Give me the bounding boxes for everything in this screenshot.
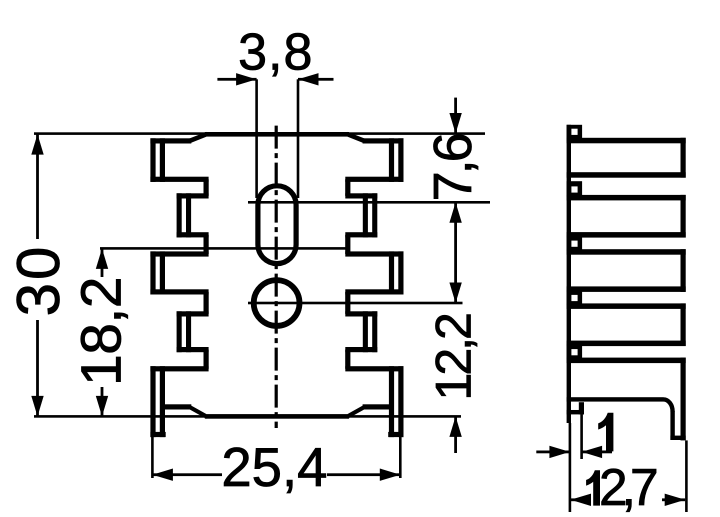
extension line solder pin right (1) — [580, 414, 583, 459]
left fin 3 tip inner wall — [160, 251, 165, 294]
left root wall fin3-fin4 — [204, 292, 209, 314]
dimension 7,6 top arrow — [449, 113, 461, 134]
extension line slot-hole upper arc center (7,6 reference) — [248, 201, 490, 204]
dimension 3,8 line left part — [217, 78, 256, 81]
left fin 2 tip inner wall — [186, 193, 191, 237]
side view solder pin notch bottom cap — [567, 410, 584, 415]
dimension 30 line upper part — [36, 134, 39, 239]
side view solder pin notch (white) — [571, 402, 579, 410]
svg-text:25,4: 25,4 — [221, 437, 327, 498]
dimension 3,8 left arrow — [236, 73, 257, 85]
left fin 4 tip outer wall — [177, 311, 182, 352]
side view foot bottom cap — [670, 436, 685, 440]
dimension 3,8 line right part — [298, 78, 334, 81]
left fin 1 tip inner wall — [160, 138, 165, 182]
dimension 12,2 line below — [454, 416, 457, 453]
extension line slot-hole lower arc center (18,2 reference) — [100, 247, 348, 250]
dimension 7,6 bottom arrow — [449, 202, 461, 223]
dimension 30 top arrow — [31, 134, 43, 155]
right solder tab outer wall — [398, 366, 403, 437]
side view fin 2 top edge — [567, 195, 686, 201]
side view base back edge — [567, 125, 571, 423]
front view top edge — [205, 132, 349, 137]
side view fin 4 bottom edge — [567, 341, 686, 347]
right fin 5 (solder tab) top edge — [345, 366, 403, 371]
right solder tab bottom cap — [388, 432, 403, 437]
dimension 25,4 line left part — [152, 473, 222, 476]
left fin 1 bottom edge — [150, 177, 208, 182]
left fin 2 tip outer wall — [177, 193, 182, 237]
right root wall fin1-fin2 — [345, 179, 350, 196]
dimension 25,4 right arrow — [380, 469, 401, 481]
left solder tab bottom cap — [150, 432, 165, 437]
extension line side view front face (12,7) — [685, 440, 688, 512]
slot hole (obround 3,8) — [258, 186, 296, 264]
right solder tab inner bottom edge — [363, 404, 394, 409]
front view bottom edge — [205, 414, 349, 419]
side view fin 5 right edge and foot right edge — [681, 358, 686, 441]
side view fin 4 top edge — [567, 303, 686, 309]
right fin 4 tip outer wall — [372, 311, 377, 352]
left fin 4 bottom edge — [177, 347, 209, 352]
dimension 30 line lower part — [36, 320, 39, 416]
dimension 1 left arrow — [549, 446, 570, 458]
dimension 7,6 / 12,2 shared line — [454, 202, 457, 303]
left fin 2 top edge — [177, 193, 209, 198]
dimension 1 line left part — [536, 451, 570, 454]
extension line round-hole center (12,2 reference) — [248, 302, 463, 305]
side view top corner tab — [567, 125, 583, 141]
left fin 3 bottom edge — [150, 289, 208, 294]
dimension 3,8 right arrow — [298, 73, 319, 85]
extension line bottom edge (30 / 18,2 / 12,2 reference) — [34, 415, 461, 418]
left fin 4 top edge — [177, 311, 209, 316]
vertical center line front view — [275, 126, 278, 428]
left solder tab inner bottom edge — [161, 404, 192, 409]
side view fin 3 right edge — [681, 249, 686, 292]
front view top left chamfer — [189, 132, 206, 144]
dimension 30 bottom arrow — [31, 396, 43, 417]
side view tab above fin 3 — [567, 235, 583, 251]
right fin 2 bottom edge — [345, 232, 377, 237]
side view fin 1 right edge — [681, 138, 686, 178]
right solder tab inner wall — [389, 366, 394, 437]
left fin 1 tip outer wall — [150, 138, 155, 182]
right root wall fin2-fin3 — [345, 235, 350, 254]
extension line top edge (30 / 7,6 reference) — [34, 132, 485, 135]
side view fin 1 top edge — [567, 138, 686, 144]
side view fin 4 right edge — [681, 303, 686, 346]
dimension 25,4 line right part — [327, 473, 400, 476]
left fin 3 top edge — [150, 251, 208, 256]
dimension 18,2 top arrow — [96, 248, 108, 269]
svg-text:2,7: 2,7 — [599, 458, 657, 516]
side view tab above fin 4 — [567, 290, 583, 306]
side view solder pin notch right wall — [579, 402, 584, 414]
right fin 2 top edge — [345, 193, 377, 198]
dimension 7,6 line above — [454, 98, 457, 134]
dimension 12,7 line right part — [662, 498, 685, 501]
side view fin 1 bottom edge — [567, 172, 686, 178]
front view top right chamfer — [348, 132, 365, 144]
dimension 1 line right part — [582, 451, 612, 454]
extension line slot-hole right (3,8) — [297, 79, 300, 198]
front view bottom right chamfer — [348, 405, 365, 419]
left fin 3 tip outer wall — [150, 251, 155, 294]
side view fin 3 top edge — [567, 249, 686, 255]
svg-text:18,2: 18,2 — [70, 277, 134, 386]
side view foot notch left wall — [670, 411, 674, 440]
left root wall fin4-fin5 — [204, 350, 209, 369]
side view fin 2 right edge — [681, 195, 686, 238]
right fin 3 top edge — [345, 251, 403, 256]
side view fin 3 bottom edge — [567, 286, 686, 292]
right root wall fin4-fin5 — [345, 350, 350, 369]
left root wall fin1-fin2 — [204, 179, 209, 196]
side view foot fillet — [664, 399, 673, 411]
right fin 1 tip outer wall — [398, 138, 403, 182]
left fin 1 top edge — [150, 138, 191, 143]
left solder tab inner wall — [160, 366, 165, 437]
right fin 1 bottom edge — [345, 177, 403, 182]
extension line left solder tab (25,4) — [151, 437, 154, 478]
side view tab above fin 2 — [567, 181, 583, 197]
dimension 12,7 line left part — [571, 498, 587, 501]
right fin 4 bottom edge — [345, 347, 377, 352]
dimension 18,2 line lower part — [101, 387, 104, 416]
side view fin 5 top edge — [567, 358, 686, 364]
dimension 1 right arrow — [582, 446, 603, 458]
dimension 18,2 line upper part — [101, 248, 104, 277]
side view tab above fin 5 — [567, 344, 583, 360]
right fin 2 tip outer wall — [372, 193, 377, 237]
svg-text:3,8: 3,8 — [238, 23, 313, 81]
dimension 12,2 bottom arrow — [449, 416, 461, 437]
left solder tab outer wall — [150, 366, 155, 437]
left root wall fin2-fin3 — [204, 235, 209, 254]
right fin 3 tip outer wall — [398, 251, 403, 294]
left fin 4 tip inner wall — [186, 311, 191, 352]
dimension 25,4 left arrow — [152, 469, 173, 481]
dimension label 12,7 digit 1 — [587, 471, 600, 506]
dimension 12,7 left arrow — [571, 494, 592, 506]
right fin 1 tip inner wall — [389, 138, 394, 182]
right fin 2 tip inner wall — [363, 193, 368, 237]
dimension label 1 — [599, 413, 613, 451]
right fin 3 bottom edge — [345, 289, 403, 294]
svg-text:30: 30 — [5, 244, 72, 317]
svg-text:7,6: 7,6 — [423, 134, 483, 201]
right root wall fin3-fin4 — [345, 292, 350, 314]
right fin 4 tip inner wall — [363, 311, 368, 352]
right fin 1 top edge — [363, 138, 404, 143]
extension line slot-hole left (3,8) — [255, 79, 258, 198]
left fin 2 bottom edge — [177, 232, 209, 237]
left fin 5 (solder tab) top edge — [150, 366, 208, 371]
extension line right solder tab (25,4) — [399, 437, 402, 478]
dimension 12,7 right arrow — [665, 494, 686, 506]
extension line side view back face (1 / 12,7) — [569, 423, 572, 512]
right fin 4 top edge — [345, 311, 377, 316]
side view foot top edge (fin 5 bottom) — [567, 397, 664, 401]
svg-text:12,2: 12,2 — [426, 314, 482, 401]
front view bottom left chamfer — [189, 405, 206, 419]
side view fin 2 bottom edge — [567, 232, 686, 238]
right fin 3 tip inner wall — [389, 251, 394, 294]
dimension 18,2 bottom arrow — [96, 396, 108, 417]
dimension 12,2 top arrow — [449, 283, 461, 304]
round hole — [254, 280, 300, 326]
